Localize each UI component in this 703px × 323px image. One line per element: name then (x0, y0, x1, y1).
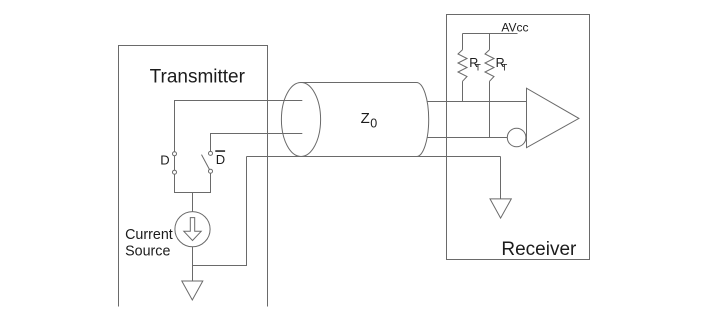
svg-text:D: D (160, 152, 169, 167)
comparator U1 (527, 88, 579, 148)
svg-text:Z: Z (361, 110, 370, 127)
wire switch D-bar bottom to common node (193, 173, 211, 192)
transmission line Z0 cylinder (281, 83, 428, 157)
wire cable to comparator + input (427, 101, 526, 103)
wire from switch D top to cable (175, 101, 303, 152)
transmitter box (119, 46, 268, 307)
wire return line to receiver ground (500, 157, 502, 199)
svg-text:T: T (475, 63, 481, 73)
AVcc rail (463, 33, 518, 35)
label Z0 (361, 110, 378, 131)
wire cable to comparator - input (427, 137, 507, 139)
wire ground node to cable shield (193, 157, 247, 266)
resistor RT (right) (485, 34, 494, 138)
current source I1 (175, 212, 210, 247)
switch D-bar (open) (202, 151, 213, 173)
svg-text:T: T (502, 63, 508, 73)
switch D (173, 152, 177, 174)
receiver box (447, 15, 590, 260)
label D-bar (215, 150, 225, 167)
svg-text:0: 0 (370, 117, 377, 131)
svg-text:D: D (216, 152, 225, 167)
label Current Source (125, 227, 173, 260)
ground (transmitter) (182, 281, 203, 300)
wire current source to ground (192, 247, 194, 281)
ground (receiver) (490, 199, 511, 218)
resistor RT (left) (458, 34, 467, 102)
svg-text:Transmitter: Transmitter (150, 67, 246, 88)
svg-text:AVcc: AVcc (501, 21, 528, 35)
wire switch D bottom to common node (175, 174, 193, 192)
svg-text:Source: Source (125, 244, 170, 260)
label RT (left) (469, 56, 481, 73)
wire cable shield / return line (247, 156, 501, 158)
wire common node to current source (192, 193, 194, 212)
svg-text:Receiver: Receiver (501, 239, 577, 260)
wire from switch D-bar top to cable (211, 134, 303, 152)
label RT (right) (496, 56, 508, 73)
inverting input bubble (507, 128, 526, 147)
svg-text:Current: Current (125, 227, 173, 243)
